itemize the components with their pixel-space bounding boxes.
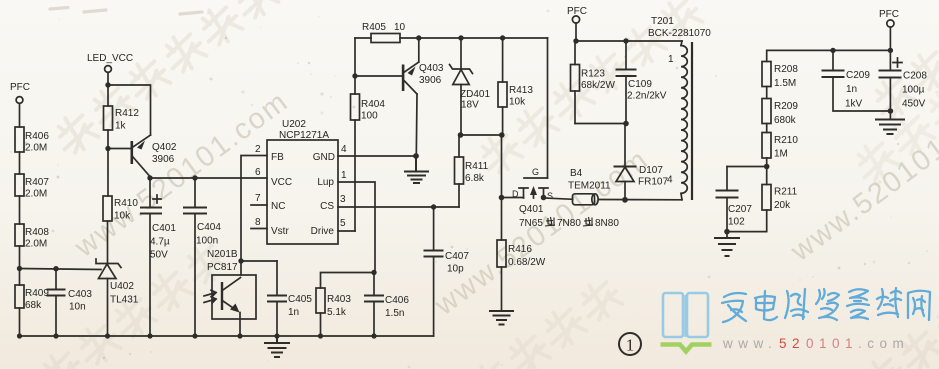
svg-text:1.5M: 1.5M: [774, 78, 796, 89]
svg-text:100µ: 100µ: [902, 85, 925, 96]
svg-text:C208: C208: [903, 71, 927, 82]
wire opto emitter to rail: [239, 313, 241, 337]
svg-text:7N65: 7N65: [519, 218, 543, 229]
svg-text:GND: GND: [313, 152, 335, 163]
svg-text:C407: C407: [445, 251, 469, 262]
node C208 bottom junction: [888, 108, 894, 114]
svg-text:PC817: PC817: [207, 262, 238, 273]
watermark band bottom-center: [466, 275, 625, 369]
svg-text:1: 1: [626, 336, 635, 355]
node D107 anode: [622, 197, 628, 203]
node C404 top: [192, 175, 197, 180]
svg-text:0101: 0101: [806, 336, 858, 351]
svg-text:5: 5: [340, 218, 346, 229]
wire R208 to R209: [766, 87, 768, 99]
wire drain vertical: [501, 135, 503, 240]
svg-text:7: 7: [255, 193, 261, 204]
svg-text:100n: 100n: [196, 236, 218, 247]
svg-text:R407: R407: [25, 177, 49, 188]
wire CS pin3 to R411: [338, 206, 459, 208]
wire snubber bottom: [575, 123, 626, 125]
svg-text:100: 100: [361, 111, 378, 122]
watermark band top-left: [50, 0, 281, 159]
svg-text:4: 4: [667, 175, 673, 186]
svg-text:4.7µ: 4.7µ: [150, 237, 170, 248]
svg-text:2: 2: [255, 144, 261, 155]
svg-text:BCK-2281070: BCK-2281070: [648, 28, 711, 39]
node divider tap: [764, 164, 770, 170]
svg-text:20k: 20k: [774, 200, 791, 211]
svg-text:52: 52: [779, 336, 805, 351]
svg-text:10p: 10p: [447, 264, 464, 275]
wire Q403 collector down to GND wire: [415, 94, 418, 156]
shunt regulator U402 TL431: [96, 259, 139, 336]
node GND junction: [413, 153, 419, 159]
svg-text:102: 102: [728, 217, 745, 228]
svg-text:FR107: FR107: [638, 177, 668, 188]
svg-text:C209: C209: [846, 70, 870, 81]
node junction left column y268: [17, 266, 22, 271]
capacitor C406: [365, 273, 409, 337]
resistor R404: [351, 94, 386, 122]
wire branch to C405: [241, 260, 277, 262]
svg-text:R408: R408: [25, 227, 49, 238]
svg-text:68k: 68k: [25, 300, 42, 311]
svg-text:PFC: PFC: [10, 82, 30, 93]
svg-text:N201B: N201B: [207, 249, 238, 260]
wire VCC line to U202 pin6: [150, 177, 267, 179]
capacitor C407: [425, 207, 470, 336]
svg-text:FB: FB: [271, 152, 284, 163]
node snubber / D107: [623, 121, 629, 127]
wire R209 to R210: [766, 124, 768, 133]
svg-text:10: 10: [394, 22, 406, 33]
svg-text:10k: 10k: [114, 211, 131, 222]
svg-text:LED_VCC: LED_VCC: [87, 53, 133, 64]
watermark band bottom-right over logo: [858, 298, 939, 369]
capacitor C401 (electrolytic): [141, 178, 176, 336]
svg-text:C207: C207: [728, 204, 752, 215]
node R413 top: [500, 35, 505, 40]
transformer T201: [648, 16, 711, 200]
transistor Q401 MOSFET: [512, 167, 553, 215]
node CS / C407: [431, 204, 436, 209]
svg-text:R413: R413: [509, 85, 533, 96]
svg-text:1: 1: [341, 170, 347, 181]
wire Q403 emitter up to gate line: [418, 38, 420, 62]
svg-text:PFC: PFC: [879, 9, 899, 20]
svg-text:B4: B4: [570, 168, 583, 179]
svg-text:C401: C401: [152, 223, 176, 234]
resistor R405: [362, 22, 406, 43]
node Q403 base junction: [352, 73, 357, 78]
node FB / C405 branch: [238, 258, 243, 263]
node C209 top: [830, 48, 835, 53]
svg-text:0.68/2W: 0.68/2W: [508, 257, 546, 268]
resistor R406: [15, 127, 49, 154]
svg-text:8: 8: [255, 217, 261, 228]
node PFC (left input): [10, 82, 30, 103]
svg-text:1k: 1k: [115, 121, 127, 132]
node PFC2 rail junction: [573, 38, 578, 43]
node LED_VCC: [87, 53, 133, 72]
svg-text:R208: R208: [774, 64, 798, 75]
svg-text:R405: R405: [362, 22, 386, 33]
svg-text:3906: 3906: [152, 154, 175, 165]
capacitor C403: [48, 269, 93, 336]
transistor Q402: [131, 135, 177, 177]
wire PFC2 down: [575, 23, 577, 41]
svg-text:R411: R411: [465, 161, 489, 172]
wire ZD/R413 bottoms joined: [459, 134, 503, 136]
svg-text:R406: R406: [25, 131, 49, 142]
wire branch to Q402 emitter: [108, 85, 151, 135]
svg-text:R409: R409: [25, 288, 49, 299]
resistor R123: [571, 41, 616, 124]
svg-text:2.0M: 2.0M: [25, 189, 47, 200]
node ZD401 top: [458, 35, 463, 40]
svg-text:Q402: Q402: [152, 142, 177, 153]
resistor R407: [15, 174, 49, 200]
node Q402 collector / C401: [147, 175, 152, 180]
resistor R412: [104, 106, 140, 132]
node y135 left: [458, 132, 464, 138]
node dots on rail: [17, 333, 377, 338]
resistor R408: [15, 224, 49, 250]
ground symbol under R416: [490, 311, 513, 325]
svg-text:1n: 1n: [288, 307, 299, 318]
wire GND pin4 to ground node: [338, 155, 416, 157]
op-amp / controller U202 NCP1271A: [267, 119, 338, 244]
svg-text:1n: 1n: [846, 84, 857, 95]
wire R406 to R407: [19, 152, 21, 174]
svg-text:Q401: Q401: [519, 204, 544, 215]
resistor R409: [15, 285, 49, 311]
wire LED_VCC down to node: [107, 73, 109, 107]
svg-text:1.5n: 1.5n: [385, 308, 404, 319]
wire FB routing (pin2 left, down to opto collector): [241, 156, 267, 276]
wire drain to mosfet: [502, 197, 524, 199]
svg-text:3: 3: [340, 194, 346, 205]
svg-text:U202: U202: [282, 119, 306, 130]
resistor R413: [498, 38, 533, 135]
node C403 top: [53, 266, 58, 271]
svg-text:6: 6: [255, 167, 261, 178]
pin 8 + stub Vstr: [251, 217, 267, 229]
svg-text:Lup: Lup: [317, 177, 334, 188]
wire R408 to node / R409 / rail: [19, 246, 21, 285]
svg-text:C405: C405: [288, 294, 312, 305]
svg-text:1: 1: [668, 54, 674, 65]
wire R211 bottom: [727, 210, 767, 232]
svg-text:10k: 10k: [509, 97, 526, 108]
node PFC2 top: [567, 6, 587, 23]
pin 7 + stub NC: [251, 193, 267, 205]
stray scan marks top-left: [50, 8, 202, 15]
resistor R410: [103, 196, 138, 222]
wire R404 top to corner / base node: [354, 38, 356, 94]
wire R210 to node: [766, 158, 768, 185]
wire R410 to TL431: [107, 221, 109, 263]
site logo url: [722, 336, 909, 351]
site logo text (stylized): [722, 288, 930, 322]
resistor R416: [497, 240, 546, 268]
watermark band bottom-left: [36, 238, 231, 369]
ground symbol under C208: [876, 120, 904, 135]
wire reference line y268 to TL431: [20, 269, 102, 270]
site logo book icon: [661, 293, 712, 352]
svg-text:2.2n/2kV: 2.2n/2kV: [627, 91, 667, 102]
ground symbol on rail: [265, 336, 289, 357]
svg-text:1M: 1M: [774, 149, 788, 160]
svg-text:S: S: [547, 191, 553, 201]
wire B4 to transformer: [598, 199, 682, 201]
svg-text:D107: D107: [639, 165, 663, 176]
svg-text:50V: 50V: [150, 250, 168, 261]
svg-text:R210: R210: [774, 135, 798, 146]
svg-text:R412: R412: [115, 108, 139, 119]
node y135 right: [499, 132, 505, 138]
svg-text:6.8k: 6.8k: [465, 173, 485, 184]
fuse B4 TEM2011: [568, 168, 611, 205]
node C208 top: [888, 48, 893, 53]
capacitor C405: [268, 261, 312, 336]
node LED_VCC branch: [105, 82, 110, 87]
zener diode ZD401: [450, 38, 491, 135]
wire Lup pin1 down to R403/C406: [338, 182, 375, 273]
wire PFC to R406: [19, 104, 21, 128]
node emitter junction top: [416, 35, 421, 40]
svg-text:C403: C403: [68, 289, 92, 300]
transistor Q403: [402, 62, 444, 94]
svg-text:C109: C109: [628, 79, 652, 90]
svg-text:2.0M: 2.0M: [25, 239, 47, 250]
node Lup / R403 / C406 junction: [371, 270, 376, 275]
wire R407 to R408: [19, 196, 21, 224]
capacitor C209: [823, 50, 891, 111]
wire base node to Q403: [355, 75, 402, 77]
svg-text:Vstr: Vstr: [271, 226, 289, 237]
svg-text:R410: R410: [114, 198, 138, 209]
svg-text:4: 4: [341, 144, 347, 155]
circled figure number 1: [619, 333, 641, 355]
label Q401 type: [519, 217, 619, 229]
svg-text:68k/2W: 68k/2W: [581, 80, 615, 91]
node C109 top: [623, 38, 628, 43]
svg-text:450V: 450V: [902, 99, 926, 110]
svg-text:.com: .com: [858, 336, 909, 351]
resistor R209: [762, 99, 798, 127]
svg-text:www.: www.: [722, 336, 777, 351]
svg-text:U402: U402: [110, 281, 134, 292]
wire source to B4: [544, 198, 573, 199]
svg-text:R416: R416: [508, 244, 532, 255]
wire primary top rail: [576, 40, 682, 42]
ground symbol under C207: [715, 238, 739, 256]
bottom ground rail: [20, 335, 434, 337]
watermark band center: [474, 0, 705, 179]
node Q402 base junction: [105, 146, 110, 151]
svg-text:CS: CS: [320, 201, 334, 212]
svg-text:Q403: Q403: [419, 63, 444, 74]
svg-text:G: G: [532, 167, 539, 177]
svg-text:10n: 10n: [69, 302, 86, 313]
ground symbol at pin4: [405, 156, 428, 183]
capacitor C404: [184, 178, 221, 336]
watermark band top-right corner: [868, 18, 939, 123]
svg-text:R123: R123: [581, 69, 605, 80]
resistor R211: [762, 185, 798, 212]
svg-text:2.0M: 2.0M: [25, 143, 47, 154]
svg-text:TL431: TL431: [110, 295, 139, 306]
svg-text:18V: 18V: [461, 100, 479, 111]
svg-text:C404: C404: [197, 222, 221, 233]
svg-text:7N80: 7N80: [557, 218, 581, 229]
svg-text:R403: R403: [327, 294, 351, 305]
resistor divider column right: top rail: [767, 50, 891, 61]
capacitor C109: [617, 41, 667, 124]
wire gate vertical: [547, 38, 549, 178]
svg-text:VCC: VCC: [271, 177, 292, 188]
wire R405 right to gate corner: [400, 37, 548, 39]
wire Drive pin5 up through R404 to R405: [338, 230, 355, 232]
wire R416 to ground: [501, 267, 503, 311]
svg-text:5.1k: 5.1k: [327, 307, 347, 318]
node drain junction: [499, 195, 505, 201]
svg-text:T201: T201: [651, 16, 674, 27]
svg-text:8N80: 8N80: [595, 218, 619, 229]
wire R409 bottom to rail: [19, 308, 21, 336]
capacitor C208 (electrolytic): [880, 50, 928, 119]
svg-text:R211: R211: [774, 187, 798, 198]
resistor R403: [316, 273, 374, 337]
svg-text:1kV: 1kV: [845, 99, 863, 110]
node PFC3 (right): [879, 9, 899, 27]
wire PFC3 down: [889, 27, 891, 50]
svg-text:680k: 680k: [774, 115, 797, 126]
svg-text:ZD401: ZD401: [460, 89, 490, 100]
capacitor C207: [717, 167, 753, 239]
wire tap to C207: [727, 166, 767, 168]
wire R412 to base node: [107, 130, 109, 196]
svg-text:C406: C406: [385, 295, 409, 306]
resistor R411: [455, 135, 489, 207]
svg-text:D: D: [512, 189, 519, 199]
diode D107: [615, 124, 669, 200]
optocoupler N201B PC817: [204, 249, 256, 319]
svg-text:R209: R209: [774, 101, 798, 112]
wire top drive line with R405: [355, 37, 371, 39]
svg-text:Drive: Drive: [311, 226, 335, 237]
svg-text:R404: R404: [361, 99, 385, 110]
watermark band right-middle: [850, 82, 939, 187]
svg-text:NC: NC: [271, 201, 285, 212]
wire base node to Q402: [108, 148, 131, 150]
resistor R210: [762, 133, 798, 160]
node C207 bottom junction: [724, 229, 730, 235]
node mosfet source: [541, 195, 547, 201]
resistor R208: [762, 62, 798, 90]
svg-text:3906: 3906: [419, 75, 442, 86]
svg-text:TEM2011: TEM2011: [568, 181, 611, 192]
